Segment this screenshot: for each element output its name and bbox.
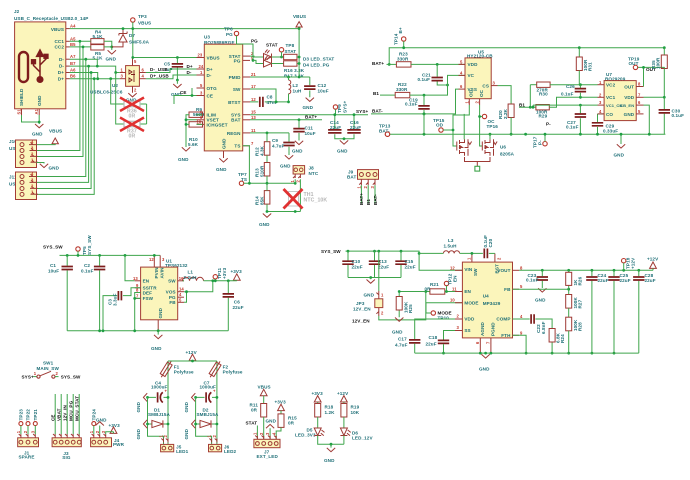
svg-text:2.2K: 2.2K [503,108,508,119]
svg-text:R18: R18 [325,405,334,410]
svg-text:B6: B6 [70,74,76,79]
svg-text:17: 17 [251,84,256,89]
wire B+ top rail [389,41,665,64]
svg-text:SHIELD: SHIELD [19,88,24,106]
svg-text:BAT+: BAT+ [359,193,364,205]
svg-text:REGN: REGN [227,131,241,136]
svg-text:0.1uF: 0.1uF [526,278,539,283]
svg-text:4: 4 [142,74,145,79]
ground LEDs [330,443,333,446]
svg-text:C2: C2 [84,263,90,268]
svg-text:0.1uF: 0.1uF [418,77,431,82]
svg-text:SYS_SW: SYS_SW [87,235,92,255]
svg-text:510R: 510R [260,165,265,177]
capacitor C1 [66,254,69,257]
svg-text:DEF: DEF [143,290,153,295]
inductor L1 [183,280,185,282]
svg-text:4.7uF: 4.7uF [272,144,285,149]
capacitor C26 [579,85,581,98]
svg-text:8: 8 [520,265,523,270]
SECTION-H [246,385,374,464]
ic U7 BQ29209 [598,72,644,121]
resistor R27 [566,295,572,309]
wire common source [465,157,491,166]
svg-text:C11: C11 [305,126,314,131]
resistor R28 [566,317,572,331]
svg-text:STAT: STAT [266,42,278,47]
svg-text:1: 1 [467,257,472,260]
ic U4 MP3429 [450,253,523,353]
svg-text:C1: C1 [50,263,56,268]
ground boost [485,352,487,355]
svg-text:SYS+: SYS+ [356,109,368,114]
svg-text:R26: R26 [577,276,582,285]
wire boost gnd rail [415,352,639,354]
testpoint TP16 OC [482,114,486,118]
svg-text:NTC_10K: NTC_10K [304,198,328,204]
svg-text:MODE: MODE [464,300,478,305]
svg-text:D-_USB: D-_USB [150,67,168,72]
svg-text:VBUS: VBUS [51,27,64,32]
resistor R20 [508,104,514,118]
inductor L2 [289,80,291,94]
svg-text:VC: VC [468,73,475,78]
svg-text:13: 13 [133,276,138,281]
svg-text:1: 1 [381,293,384,298]
svg-text:1: 1 [121,68,124,73]
svg-text:SW: SW [473,268,478,276]
svg-text:SS: SS [464,328,470,333]
svg-text:TS: TS [241,177,247,182]
svg-text:6: 6 [638,100,641,105]
svg-text:C8: C8 [267,95,273,100]
svg-text:4: 4 [271,432,276,435]
svg-text:LED1: LED1 [176,449,188,454]
svg-text:VBUS: VBUS [49,129,62,134]
svg-text:0.1uF: 0.1uF [81,269,94,274]
svg-text:PG: PG [226,32,233,37]
ground under U2 [128,93,136,97]
ground under C9 [285,155,293,159]
svg-text:CE: CE [207,93,214,98]
wire FB row [513,288,569,290]
svg-text:7: 7 [251,141,254,146]
svg-text:+3V3: +3V3 [222,267,227,279]
svg-text:6.8nF: 6.8nF [541,321,546,334]
capacitor C17 [409,340,420,343]
svg-text:R25: R25 [408,304,413,313]
resistor R11 [261,404,267,418]
svg-text:1: 1 [356,186,361,189]
svg-text:1: 1 [253,432,258,435]
ic U1 TPS62132 [133,255,188,330]
svg-text:GND: GND [266,419,277,424]
testpoint TP14 B+ [402,37,406,41]
svg-text:SYS_SW: SYS_SW [321,249,341,254]
svg-text:13: 13 [251,115,256,120]
capacitor C14 [335,115,354,139]
svg-text:9: 9 [520,330,523,335]
svg-text:0.1uF: 0.1uF [561,92,574,97]
svg-text:+12V: +12V [631,257,636,269]
svg-text:8205A: 8205A [500,152,515,157]
resistor R30 [530,84,536,86]
wire SS row to C18 [444,331,456,340]
svg-text:C5: C5 [164,62,170,67]
testpoint TP9 SYS+ [333,105,337,109]
svg-text:3: 3 [30,430,35,433]
svg-text:SPARE: SPARE [19,455,35,460]
svg-text:EN: EN [143,279,150,284]
ground under C14 C16 [343,139,345,140]
svg-text:D+: D+ [58,76,64,81]
svg-text:SW1: SW1 [43,360,54,365]
svg-text:3: 3 [599,100,602,105]
wire EN drop [124,254,127,257]
wire DEF FSW tie [135,293,141,331]
svg-text:J8: J8 [309,166,315,171]
svg-text:OUT: OUT [624,84,634,89]
testpoint TP18 +12V [622,259,626,263]
svg-text:0R: 0R [129,134,136,140]
svg-text:330R: 330R [396,87,408,92]
svg-text:R17 3.3K: R17 3.3K [284,73,305,78]
svg-text:TS: TS [234,144,240,149]
connector J2 USB_C_Receptacle [14,9,88,115]
power +12V [650,262,657,268]
connector J5 LED1 [161,439,168,443]
connector J7 EXT_LED [255,436,276,440]
capacitor C19 [423,95,425,114]
svg-text:D4 LED_PG: D4 LED_PG [303,62,330,67]
svg-text:Polyfuse: Polyfuse [174,369,194,374]
svg-text:2: 2 [95,430,100,433]
SECTION-F [321,235,659,372]
svg-text:12: 12 [450,265,455,270]
svg-text:ICHGSET: ICHGSET [207,122,228,127]
wire P- rail [390,133,666,135]
svg-text:J2: J2 [14,9,20,14]
wire VC1 row [549,97,597,107]
capacitor C24 [591,270,593,353]
svg-text:10uF: 10uF [48,269,59,274]
svg-text:U3: U3 [204,35,210,40]
svg-text:GND: GND [184,401,189,412]
svg-text:24: 24 [199,64,204,69]
ic U5 HY2120-CB [459,49,498,105]
wire VC1_CB row [533,105,598,107]
ground J10 [40,164,48,168]
led D3 [264,50,272,61]
svg-text:S1: S1 [17,109,22,115]
svg-text:VBUS: VBUS [138,21,151,26]
resistor R36 crossed [111,73,147,125]
svg-text:22uF: 22uF [620,278,631,283]
wire PMID row [250,76,310,78]
svg-text:5: 5 [200,83,203,88]
svg-text:11: 11 [251,128,256,133]
wire J9 leads [361,185,375,203]
ground C4 [143,393,147,401]
svg-text:STAT: STAT [246,421,258,426]
capacitor C11 [298,120,300,141]
svg-text:FTH: FTH [501,333,511,338]
svg-text:MP3429: MP3429 [483,301,501,306]
wire BAT row [250,119,322,121]
svg-text:2: 2 [23,430,28,433]
capacitor C20 bootstrap [484,249,487,259]
svg-text:PVIN: PVIN [154,267,159,279]
svg-text:22uF: 22uF [233,305,244,310]
svg-text:GND: GND [324,458,335,463]
svg-text:R27: R27 [577,299,582,308]
svg-text:AVIN: AVIN [160,267,165,279]
wire J10 gnd [37,163,45,164]
svg-text:2: 2 [363,186,368,189]
svg-text:2: 2 [56,371,59,376]
svg-text:L1: L1 [188,269,194,274]
svg-text:100R: 100R [656,57,661,69]
svg-text:4: 4 [460,70,463,75]
svg-text:A5: A5 [70,36,76,41]
svg-text:VBUS: VBUS [207,56,220,61]
polyfuse F2 [216,361,218,444]
svg-text:PWR: PWR [113,442,125,447]
svg-text:TP3: TP3 [138,14,147,19]
resistor R26 [568,270,570,294]
svg-text:BAT+: BAT+ [372,61,384,66]
wire VOS FB [184,281,213,303]
svg-text:CS: CS [482,83,489,88]
svg-text:OD: OD [436,123,444,128]
svg-text:CC1: CC1 [55,39,65,44]
wire CE OTG [174,88,197,104]
svg-text:5: 5 [638,109,641,114]
svg-text:GND: GND [392,330,403,335]
svg-text:TP16: TP16 [487,124,499,129]
svg-text:+3V3: +3V3 [312,391,324,396]
inductor L3 [443,251,459,254]
power VBUS above R16 [296,22,302,27]
wire SW row [250,89,276,102]
resistor R12 [264,142,270,156]
svg-text:1: 1 [89,430,94,433]
svg-text:GND: GND [106,57,117,62]
svg-text:12V_EN: 12V_EN [353,307,371,312]
wire PG row [253,60,264,63]
svg-text:22uF: 22uF [350,125,361,130]
svg-text:6: 6 [460,84,463,89]
resistor R18 [315,404,321,418]
testpoint TP8 STAT [279,48,283,52]
capacitor C6 [227,281,229,331]
svg-text:1: 1 [16,430,21,433]
capacitor C29 [597,114,599,134]
resistor R37 crossed [120,118,144,140]
capacitor C13 [374,251,376,277]
SECTION-D [519,48,684,158]
svg-text:85K: 85K [260,196,265,205]
svg-text:GND: GND [178,157,189,162]
svg-text:U4: U4 [483,294,489,299]
svg-text:0R: 0R [425,287,432,292]
svg-text:CE: CE [180,90,187,95]
svg-text:+12V: +12V [186,350,198,355]
SECTION-B [372,27,666,171]
svg-text:A7: A7 [70,54,76,59]
wire FTH [513,335,527,353]
ground buck [157,331,159,335]
resistor R35 [663,48,665,55]
svg-text:GND: GND [184,428,189,439]
wire TP3 to VBUS [132,22,134,57]
svg-text:D7: D7 [129,33,135,38]
svg-text:SMBJ15A: SMBJ15A [197,412,219,417]
svg-text:0.1uF: 0.1uF [405,102,418,107]
svg-text:3: 3 [265,432,270,435]
wire VC2 row [550,84,597,86]
wire vset gnd [186,115,203,147]
svg-text:GND: GND [158,307,163,318]
capacitor C16 [353,115,355,130]
svg-text:VC2: VC2 [606,83,616,88]
connector J6 LED2 [209,439,216,443]
led D4 [264,56,272,67]
svg-text:LED_12V: LED_12V [352,435,373,440]
svg-text:8: 8 [638,82,641,87]
svg-text:1.5uH: 1.5uH [444,244,458,249]
svg-text:VDD: VDD [624,95,635,100]
SECTION-E [43,235,244,351]
svg-text:GND: GND [136,428,141,439]
svg-text:BTST: BTST [228,100,240,105]
svg-text:R28: R28 [577,322,582,331]
svg-text:2: 2 [259,432,264,435]
svg-text:BAT-: BAT- [372,109,383,114]
svg-text:1: 1 [34,371,37,376]
connector J3 SIG [53,434,79,438]
svg-text:2: 2 [475,101,480,104]
svg-text:A1: A1 [34,108,39,114]
svg-text:LED_3V3: LED_3V3 [295,432,316,437]
svg-text:R19: R19 [351,405,360,410]
svg-text:B1: B1 [366,199,371,205]
svg-text:SMBJ15A: SMBJ15A [148,412,170,417]
capacitor C30 [663,97,665,134]
svg-text:GND: GND [222,138,227,149]
svg-text:2: 2 [296,180,301,183]
svg-text:3: 3 [200,91,203,96]
wire CB_EN down [644,105,650,134]
svg-text:VBUS: VBUS [293,14,306,19]
testpoint TP11 +3V3 [213,275,217,279]
ground under U3 [219,158,227,162]
svg-text:D-: D- [207,73,212,78]
svg-text:PMID: PMID [229,75,241,80]
svg-text:5: 5 [460,59,463,64]
ic U3 BQ25886RGE [197,35,257,159]
svg-text:2: 2 [599,92,602,97]
svg-text:TP10: TP10 [438,316,450,321]
svg-text:5: 5 [179,297,182,302]
svg-text:GND: GND [479,367,490,372]
wire J2 shield/gnd [22,115,40,124]
svg-text:AGND: AGND [480,321,485,336]
testpoint TP12 EN [444,281,448,285]
capacitor C8 [250,101,289,103]
svg-text:22uF: 22uF [426,341,437,346]
resistor R17 [284,61,297,66]
svg-text:EN: EN [464,289,471,294]
resistor R14 [264,191,270,205]
svg-text:0.33uF: 0.33uF [603,128,618,133]
svg-text:TP8: TP8 [286,43,295,48]
svg-text:D+: D+ [187,64,193,69]
resistor R31 [578,48,580,57]
svg-text:TP22: TP22 [26,409,31,421]
connector J9 BAT [347,170,379,189]
svg-text:GND: GND [364,293,375,298]
svg-text:L2: L2 [293,83,299,88]
svg-text:0R: 0R [251,408,258,413]
svg-text:TP21: TP21 [33,409,38,421]
wire B1 to VC [410,75,465,95]
testpoint TP7 TS [239,181,243,185]
svg-text:2: 2 [457,314,460,319]
wire risers from USB headers [37,41,95,194]
svg-text:5.1K: 5.1K [93,56,104,61]
svg-text:5.6K: 5.6K [188,142,199,147]
svg-text:GND: GND [49,166,60,171]
svg-text:TP23: TP23 [18,409,23,421]
testpoint TP13 BAT- [385,132,389,136]
ground C23 [538,288,546,292]
svg-text:LED2: LED2 [224,449,236,454]
ground D1 [143,420,147,428]
svg-text:D+: D+ [58,70,64,75]
svg-text:USB_C_Receptacle_USB2.0_14P: USB_C_Receptacle_USB2.0_14P [14,16,88,21]
svg-text:+12V: +12V [337,391,349,396]
svg-text:BAT-: BAT- [373,194,378,205]
ground under R14 [263,214,271,218]
power VBUS at J10 [52,138,58,144]
svg-text:NTC: NTC [309,171,319,176]
svg-text:CC2: CC2 [55,45,65,50]
svg-text:R21: R21 [430,282,439,287]
wire VOUT rail [519,269,653,271]
ground under C11 [295,141,303,145]
resistor R24 [549,329,555,343]
svg-text:VOS: VOS [166,290,176,295]
svg-text:CO: CO [606,112,613,117]
svg-text:22uF: 22uF [645,278,656,283]
ic U2 USBLC6-2SC6 [90,59,146,95]
svg-text:GND: GND [96,417,107,422]
svg-text:SYS+: SYS+ [22,375,34,380]
resistor R5 [91,45,104,50]
svg-text:7: 7 [486,341,491,344]
svg-text:22uF: 22uF [352,264,363,269]
connector J11 USB2 [9,172,38,200]
svg-text:1: 1 [290,180,295,183]
svg-text:OC: OC [479,89,484,97]
svg-text:D3 LED_STAT: D3 LED_STAT [303,57,334,62]
svg-text:STAT: STAT [285,49,297,54]
svg-text:2: 2 [497,257,502,260]
connector J8 NTC [293,166,305,174]
svg-text:2: 2 [163,435,168,438]
svg-text:PG: PG [251,39,258,44]
